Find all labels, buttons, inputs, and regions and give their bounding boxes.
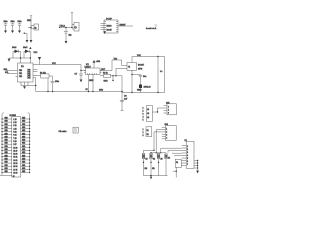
- antenna E1: [120, 93, 128, 111]
- wire right bus verticals: [157, 56, 164, 93]
- svg-text:GND: GND: [5, 168, 8, 170]
- svg-text:IC1: IC1: [21, 66, 24, 68]
- ground: [150, 177, 152, 180]
- svg-text:11 29: 11 29: [13, 150, 17, 152]
- svg-text:V+: V+: [160, 71, 163, 73]
- svg-text:22p: 22p: [69, 35, 72, 37]
- ground: [4, 31, 7, 34]
- svg-text:R4: R4: [153, 159, 155, 161]
- svg-text:Q1: Q1: [34, 28, 36, 30]
- svg-text:10k: 10k: [152, 168, 155, 170]
- connector SV1: [101, 18, 119, 33]
- svg-text:7: 7: [187, 164, 188, 166]
- svg-text:10 28: 10 28: [13, 147, 17, 149]
- transistor section top wires: [144, 150, 167, 153]
- wire net MOSI: [118, 24, 133, 26]
- ground: [80, 80, 83, 83]
- svg-text:GND: GND: [5, 149, 8, 151]
- resistor R3: [142, 150, 147, 175]
- ground: [11, 31, 14, 34]
- capacitor C5: [50, 76, 59, 92]
- ground: [30, 40, 33, 43]
- svg-text:9 27: 9 27: [13, 144, 16, 146]
- svg-text:3: 3: [143, 114, 144, 116]
- ground: [103, 31, 106, 34]
- svg-text:25: 25: [13, 176, 15, 178]
- svg-text:1: 1: [143, 129, 144, 131]
- svg-text:5 23: 5 23: [13, 132, 16, 134]
- svg-text:D4: D4: [168, 158, 170, 160]
- svg-text:1: 1: [166, 128, 167, 130]
- node stub with junction: [24, 33, 27, 41]
- svg-text:10uH: 10uH: [23, 47, 28, 49]
- diode D1: [12, 47, 21, 59]
- svg-text:0V: 0V: [86, 89, 89, 91]
- svg-text:1: 1: [168, 107, 169, 109]
- svg-text:4u7: 4u7: [124, 98, 128, 100]
- svg-text:100n: 100n: [55, 81, 59, 83]
- svg-text:GND: GND: [5, 121, 8, 123]
- op-amp IC1: [18, 63, 34, 82]
- svg-text:16 34: 16 34: [13, 166, 17, 168]
- svg-text:Q2: Q2: [75, 27, 77, 29]
- svg-text:2: 2: [143, 132, 144, 134]
- connector SV3: [162, 124, 176, 140]
- svg-text:PB2: PB2: [19, 76, 22, 78]
- svg-text:12 30: 12 30: [13, 154, 17, 156]
- svg-text:5: 5: [143, 120, 144, 122]
- capacitor C1: [4, 21, 8, 31]
- svg-text:GND: GND: [5, 143, 8, 145]
- diode D4: [165, 153, 170, 176]
- capacitor C2: [11, 21, 15, 31]
- svg-text:GND: GND: [22, 146, 25, 148]
- capacitor C8: [139, 75, 147, 85]
- svg-text:NPN: NPN: [138, 68, 143, 70]
- svg-text:GND: GND: [22, 162, 25, 164]
- svg-text:6 24: 6 24: [13, 135, 16, 137]
- svg-text:+3V3: +3V3: [96, 61, 100, 63]
- capacitor C4: [64, 28, 72, 42]
- svg-text:15 33: 15 33: [13, 163, 17, 165]
- transistor T1 block: [127, 55, 158, 71]
- ground: [26, 40, 29, 43]
- svg-text:GND: GND: [22, 152, 25, 154]
- svg-text:GND: GND: [99, 90, 104, 92]
- wire net VCC main: [33, 63, 81, 65]
- wire X2 right pins to ground: [194, 160, 198, 171]
- svg-text:A3: A3: [147, 116, 149, 119]
- svg-text:2 20: 2 20: [13, 122, 16, 124]
- wire: [47, 79, 48, 93]
- connector JP4: [143, 127, 152, 137]
- svg-text:GND: GND: [22, 143, 25, 145]
- svg-text:GND: GND: [5, 118, 8, 120]
- wire IC1 bottom pins: [21, 82, 36, 86]
- svg-text:18 36: 18 36: [13, 172, 17, 174]
- supply flag 3V3: [93, 60, 100, 68]
- svg-text:GND: GND: [22, 127, 25, 129]
- connector X2: [182, 140, 194, 168]
- wire T1 base: [115, 68, 127, 76]
- svg-text:VCC: VCC: [34, 52, 38, 54]
- svg-text:MISO: MISO: [107, 26, 113, 28]
- wire IC1 right pins: [33, 70, 41, 92]
- svg-text:GND: GND: [22, 158, 25, 160]
- resistor R5: [157, 153, 162, 176]
- svg-text:GND: GND: [22, 155, 25, 157]
- wire staircase up: [112, 58, 127, 70]
- svg-text:5: 5: [187, 158, 188, 160]
- svg-text:R5: R5: [161, 159, 163, 161]
- svg-text:XTAL2: XTAL2: [60, 24, 65, 27]
- svg-text:SJ1 solder: SJ1 solder: [59, 130, 67, 133]
- svg-text:GND: GND: [5, 140, 8, 142]
- svg-text:GND: GND: [22, 133, 25, 135]
- resistor R4: [150, 153, 155, 176]
- svg-text:GND: GND: [22, 121, 25, 123]
- svg-text:GND: GND: [5, 133, 8, 135]
- connector JP3 left labels: [143, 106, 153, 122]
- svg-text:GND: GND: [22, 118, 25, 120]
- svg-text:C7: C7: [75, 74, 78, 76]
- svg-text:GND: GND: [5, 127, 8, 129]
- svg-text:GND: GND: [5, 165, 8, 167]
- wire JP3 to SV2: [152, 108, 163, 113]
- svg-text:PA0: PA0: [28, 68, 31, 71]
- svg-text:GND: GND: [5, 146, 8, 148]
- ground: [8, 59, 11, 62]
- svg-text:B2: B2: [147, 134, 149, 136]
- svg-text:17 35: 17 35: [13, 169, 17, 171]
- svg-text:4: 4: [143, 117, 144, 119]
- svg-text:GND: GND: [22, 168, 25, 170]
- svg-text:10u: 10u: [143, 76, 146, 78]
- svg-text:GND: GND: [5, 155, 8, 157]
- svg-text:1: 1: [187, 146, 188, 148]
- svg-text:GND: GND: [22, 130, 25, 132]
- svg-text:GND: GND: [5, 171, 8, 173]
- svg-text:7 25: 7 25: [13, 138, 16, 140]
- resistor R1: [40, 72, 53, 78]
- svg-text:10uH: 10uH: [12, 47, 17, 49]
- svg-text:C9: C9: [124, 95, 127, 97]
- svg-text:R3: R3: [146, 159, 148, 161]
- wires into X2: [160, 148, 182, 156]
- sheet title text: [146, 24, 157, 30]
- svg-text:A2: A2: [147, 112, 149, 115]
- svg-text:GND: GND: [5, 130, 8, 132]
- capacitor C6: [75, 71, 84, 80]
- svg-text:3: 3: [168, 113, 169, 115]
- svg-text:2: 2: [143, 111, 144, 113]
- wire IC2 bottom pins: [88, 75, 94, 93]
- svg-text:GND: GND: [22, 149, 25, 151]
- svg-text:GND: GND: [137, 89, 142, 91]
- svg-text:3: 3: [143, 135, 144, 137]
- svg-text:PB1: PB1: [19, 73, 22, 75]
- X1 pin rows: [1, 118, 30, 175]
- ground: [23, 86, 26, 89]
- svg-text:3: 3: [166, 134, 167, 136]
- wire IC2 out: [100, 69, 112, 71]
- crystal Q2: [59, 13, 79, 32]
- jumper JP2: [59, 127, 79, 133]
- svg-text:6: 6: [187, 161, 188, 163]
- svg-text:2: 2: [187, 149, 188, 151]
- svg-text:GND: GND: [5, 124, 8, 126]
- diode D2: [23, 47, 31, 59]
- svg-text:T1: T1: [128, 67, 130, 69]
- connector SV2: [164, 103, 177, 115]
- svg-text:IC2: IC2: [86, 64, 89, 66]
- ground: [65, 41, 68, 44]
- supply flag AVCC: [34, 52, 42, 65]
- svg-text:13 31: 13 31: [13, 157, 17, 159]
- supply flag VCC: [29, 47, 31, 49]
- svg-text:2: 2: [166, 131, 167, 133]
- svg-text:4 22: 4 22: [13, 128, 16, 130]
- svg-text:GND: GND: [104, 81, 109, 83]
- svg-text:GND: GND: [89, 80, 94, 82]
- svg-text:1 19: 1 19: [13, 119, 16, 121]
- svg-text:GND: GND: [5, 158, 8, 160]
- svg-text:B1: B1: [147, 130, 149, 132]
- wire IC1 left pin nets: [4, 68, 18, 77]
- wire SV3 fan down: [153, 130, 162, 154]
- svg-text:GND: GND: [5, 152, 8, 154]
- wire bottom bus: [144, 175, 168, 176]
- capacitor C3: [18, 21, 22, 31]
- svg-text:BC847: BC847: [138, 65, 145, 67]
- ground: [18, 31, 21, 34]
- svg-text:A1: A1: [147, 108, 149, 111]
- regulator IC2: [84, 64, 102, 75]
- svg-text:4: 4: [166, 137, 167, 139]
- svg-text:1: 1: [143, 108, 144, 110]
- wire down to bus: [121, 76, 123, 92]
- svg-text:8 26: 8 26: [13, 141, 16, 143]
- wire GND bus: [36, 89, 165, 93]
- svg-text:GND: GND: [22, 136, 25, 138]
- wire VCC corner to IC2: [80, 65, 85, 72]
- crystal Q1: [27, 16, 39, 40]
- connector X1: [0, 113, 30, 178]
- svg-text:1N4148: 1N4148: [144, 87, 152, 89]
- resistor R2: [100, 73, 122, 83]
- svg-text:3 21: 3 21: [13, 125, 16, 127]
- svg-text:GND: GND: [22, 124, 25, 126]
- svg-text:14 32: 14 32: [13, 160, 17, 162]
- svg-text:PB0: PB0: [19, 70, 22, 72]
- wire T1 emitter: [131, 70, 140, 93]
- svg-text:S1: S1: [176, 162, 178, 164]
- svg-text:SV3: SV3: [165, 124, 168, 126]
- svg-text:GND: GND: [22, 165, 25, 167]
- svg-text:GND: GND: [22, 140, 25, 142]
- svg-text:MOSI: MOSI: [107, 30, 113, 32]
- box S1: [173, 159, 182, 177]
- svg-text:GND: GND: [5, 136, 8, 138]
- svg-text:GND: GND: [22, 171, 25, 173]
- ground: [196, 171, 199, 174]
- supply rail wire: [9, 57, 30, 59]
- svg-text:board rev A: board rev A: [146, 27, 157, 30]
- svg-text:10k: 10k: [145, 168, 148, 170]
- svg-text:4: 4: [187, 155, 188, 157]
- svg-text:2: 2: [168, 110, 169, 112]
- svg-text:GND: GND: [5, 162, 8, 164]
- diode D3: [139, 85, 151, 93]
- svg-text:3: 3: [187, 152, 188, 154]
- wire IC1 top pins: [20, 58, 22, 63]
